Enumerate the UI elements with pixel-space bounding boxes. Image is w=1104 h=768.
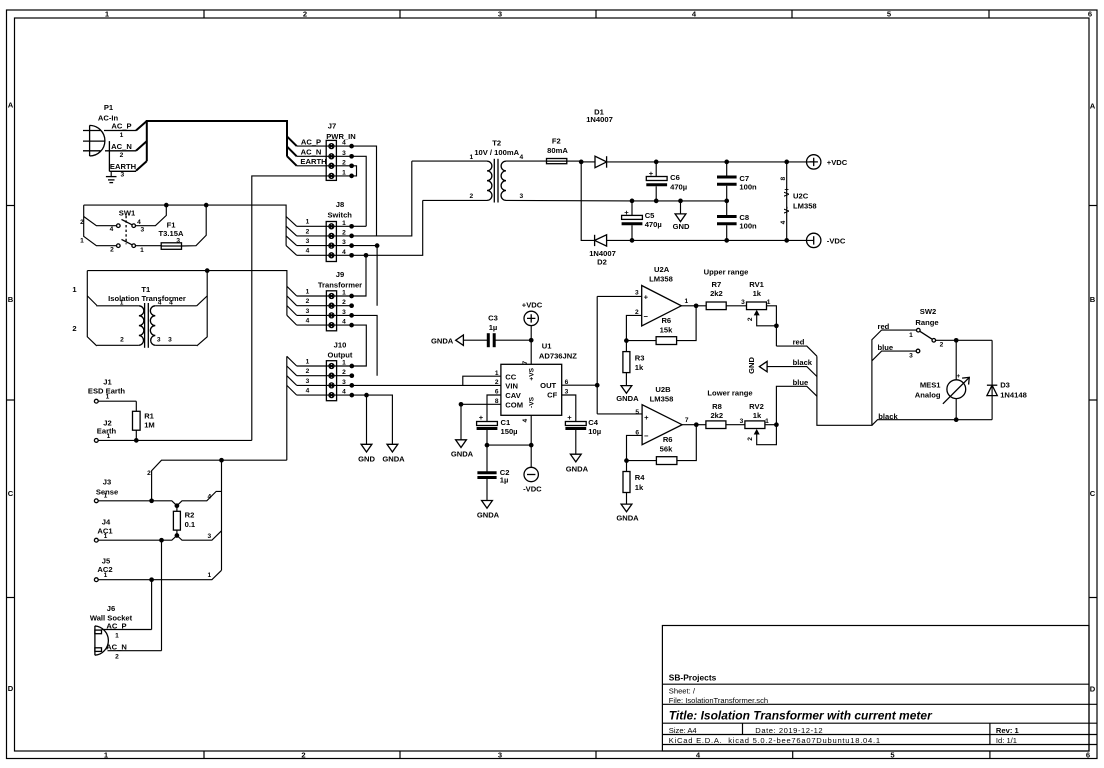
svg-text:C4: C4: [588, 418, 598, 427]
svg-text:AD736JNZ: AD736JNZ: [539, 352, 577, 361]
svg-text:+VDC: +VDC: [827, 158, 848, 167]
wire J8.3 to J9.2: [352, 246, 378, 306]
wire U1 COM: [461, 404, 501, 440]
svg-text:2k2: 2k2: [710, 411, 723, 420]
svg-text:EARTH: EARTH: [110, 162, 136, 171]
svg-text:3: 3: [157, 337, 161, 344]
svg-text:3: 3: [306, 378, 310, 385]
svg-text:C6: C6: [670, 173, 680, 182]
wire J9.3 to J10.2: [352, 315, 378, 375]
resistor R6 15k (U2A feedback): [626, 306, 696, 345]
svg-text:T3.15A: T3.15A: [159, 229, 184, 238]
svg-text:Date: 2019-12-12: Date: 2019-12-12: [755, 726, 823, 735]
wire J7.2 to J7.1: [352, 166, 357, 176]
svg-text:U2B: U2B: [655, 385, 671, 394]
svg-text:470µ: 470µ: [645, 220, 662, 229]
ground GND (J10.4): [358, 444, 375, 463]
svg-text:8: 8: [780, 177, 787, 181]
ground GNDA (R3): [616, 386, 639, 403]
connector P1 AC-In: [83, 103, 136, 178]
wire J4 to J6 AC_N: [161, 540, 163, 651]
svg-text:C5: C5: [645, 211, 655, 220]
svg-text:1: 1: [107, 433, 111, 440]
wire U1 CF to C4: [562, 395, 576, 422]
svg-text:56k: 56k: [660, 445, 673, 454]
svg-text:1: 1: [342, 290, 346, 297]
op-amp U2A LM358: [626, 265, 696, 341]
capacitor C1 150u: [477, 413, 518, 445]
ground GNDA (R4): [616, 504, 639, 523]
svg-text:J1: J1: [103, 378, 112, 387]
svg-text:2: 2: [115, 653, 119, 660]
svg-text:SW2: SW2: [920, 307, 936, 316]
wire W1 J3 riser to J10 trunk: [147, 458, 287, 501]
svg-text:D3: D3: [1000, 380, 1010, 389]
svg-text:3: 3: [740, 418, 744, 425]
svg-text:1: 1: [342, 220, 346, 227]
svg-text:-VDC: -VDC: [523, 484, 542, 493]
svg-text:Lower range: Lower range: [707, 389, 752, 398]
title block: [662, 626, 1097, 752]
svg-text:red: red: [793, 338, 805, 347]
svg-text:Analog: Analog: [915, 390, 941, 399]
svg-text:J3: J3: [103, 478, 111, 487]
svg-text:4: 4: [306, 318, 310, 325]
wire red (RV1 to bundle): [776, 338, 817, 357]
wire black (to meter rail): [872, 412, 992, 425]
wire J7.4 to J8.2: [352, 146, 377, 236]
capacitor C2 1u: [477, 445, 509, 500]
svg-text:T1: T1: [141, 285, 151, 294]
junction dot T1.4: [205, 268, 210, 273]
svg-text:3: 3: [120, 171, 124, 178]
IC U1 AD736JNZ: [495, 342, 577, 423]
svg-text:R2: R2: [185, 511, 195, 520]
ground GNDA (COM): [451, 440, 474, 459]
bus entries J8: [286, 217, 297, 256]
resistor R8 2k2: [696, 402, 745, 429]
svg-text:File: IsolationTransformer.sch: File: IsolationTransformer.sch: [669, 696, 768, 705]
svg-text:3: 3: [342, 150, 346, 157]
svg-text:1k: 1k: [753, 289, 762, 298]
connector J7 PWR_IN: [297, 121, 356, 180]
svg-text:V-: V-: [782, 206, 791, 214]
svg-text:3: 3: [207, 533, 211, 540]
svg-text:Id: 1/1: Id: 1/1: [996, 736, 1017, 745]
op-amp U2B LM358: [627, 385, 697, 461]
svg-text:-VS: -VS: [529, 396, 536, 408]
svg-text:VIN: VIN: [505, 382, 518, 391]
svg-text:F1: F1: [167, 220, 177, 229]
svg-text:0.1: 0.1: [185, 520, 196, 529]
svg-text:Sheet: /: Sheet: /: [669, 687, 696, 696]
svg-text:RV1: RV1: [749, 280, 764, 289]
ground GND (black wire): [747, 356, 767, 373]
connector J2 Earth: [94, 418, 251, 442]
svg-text:2: 2: [342, 229, 346, 236]
wire meter vertical: [955, 340, 957, 419]
resistor R3 1k: [623, 341, 645, 386]
transformer T1: [72, 271, 207, 348]
svg-text:2: 2: [342, 159, 346, 166]
svg-text:blue: blue: [793, 378, 809, 387]
svg-text:GNDA: GNDA: [477, 510, 500, 519]
svg-text:2: 2: [342, 369, 346, 376]
svg-text:2: 2: [747, 317, 754, 321]
svg-text:PWR_IN: PWR_IN: [326, 132, 356, 141]
connector J3 Sense: [94, 478, 221, 509]
ground GNDA (C4): [566, 454, 589, 473]
bus entries J9: [287, 286, 297, 325]
svg-text:OUT: OUT: [540, 381, 556, 390]
svg-text:1: 1: [767, 299, 771, 306]
svg-text:7: 7: [685, 417, 689, 424]
svg-text:3: 3: [342, 239, 346, 246]
resistor R2: [173, 506, 196, 536]
resistor R7 2k2: [696, 280, 746, 309]
svg-text:GND: GND: [747, 356, 756, 373]
diode D1 1N4007: [581, 108, 814, 168]
svg-text:J5: J5: [102, 556, 111, 565]
svg-text:1: 1: [909, 332, 913, 339]
svg-text:1: 1: [120, 299, 124, 306]
svg-text:100n: 100n: [739, 221, 757, 230]
svg-text:1: 1: [104, 493, 108, 500]
ground GNDA (J10.4): [382, 444, 405, 463]
power flag +VDC: [807, 155, 848, 169]
svg-text:R6: R6: [663, 435, 673, 444]
wire U1 pin4 to -VDC: [530, 415, 532, 467]
connector J1 ESD Earth: [88, 378, 136, 404]
power flag -VDC: [807, 233, 846, 247]
diode D3 1N4148: [987, 340, 1027, 419]
potentiometer RV1 1k: [741, 280, 779, 346]
svg-text:LM358: LM358: [793, 201, 817, 210]
wire J10.3 to U1 VIN: [352, 384, 501, 386]
svg-text:J10: J10: [334, 340, 347, 349]
wire mid rail: [632, 200, 727, 202]
junction dots J10: [349, 364, 368, 398]
svg-text:4: 4: [306, 388, 310, 395]
svg-text:1: 1: [80, 238, 84, 245]
junction dots U2B: [624, 458, 629, 463]
connector J10 Output: [297, 340, 353, 400]
svg-text:AC_N: AC_N: [111, 142, 132, 151]
transformer T2: [412, 139, 632, 203]
svg-text:3: 3: [168, 337, 172, 344]
svg-text:C1: C1: [501, 418, 511, 427]
svg-text:LM358: LM358: [650, 394, 674, 403]
wire J7.1 to J2: [252, 176, 326, 441]
resistor R6 56k (U2B feedback): [627, 425, 697, 465]
capacitor C8 100n: [717, 201, 757, 241]
svg-text:CAV: CAV: [505, 391, 521, 400]
power flag -VDC (U1): [523, 467, 542, 493]
svg-text:GNDA: GNDA: [616, 514, 639, 523]
svg-text:AC_P: AC_P: [106, 621, 126, 630]
svg-text:1: 1: [684, 298, 688, 305]
svg-text:AC_P: AC_P: [301, 137, 321, 146]
svg-text:T2: T2: [492, 139, 501, 148]
svg-text:4: 4: [306, 248, 310, 255]
svg-text:3: 3: [519, 193, 523, 200]
svg-text:100n: 100n: [739, 182, 757, 191]
svg-text:1: 1: [120, 132, 124, 139]
svg-text:+: +: [956, 373, 960, 380]
svg-text:1: 1: [104, 533, 108, 540]
wire J8.2 to T2.1: [352, 161, 412, 236]
svg-text:2: 2: [147, 470, 151, 477]
svg-text:Size: A4: Size: A4: [669, 726, 697, 735]
wire blue (RV2 to bundle): [776, 378, 817, 425]
svg-text:D2: D2: [597, 258, 607, 267]
svg-text:4: 4: [158, 299, 162, 306]
ground GNDA (C3): [431, 335, 463, 345]
svg-text:GNDA: GNDA: [566, 465, 589, 474]
svg-text:1k: 1k: [753, 411, 762, 420]
svg-text:4: 4: [110, 226, 114, 233]
svg-text:GND: GND: [358, 455, 375, 464]
svg-text:J9: J9: [336, 270, 344, 279]
svg-text:1: 1: [469, 154, 473, 161]
svg-text:Rev: 1: Rev: 1: [996, 726, 1020, 735]
connector J6 Wall Socket: [90, 604, 162, 661]
ground GND (mid rail): [673, 201, 690, 231]
svg-text:4: 4: [342, 389, 346, 396]
svg-text:80mA: 80mA: [547, 146, 568, 155]
svg-text:SW1: SW1: [119, 208, 136, 217]
svg-text:1: 1: [115, 633, 119, 640]
svg-text:7: 7: [522, 360, 529, 364]
connector J9 Transformer: [297, 270, 362, 331]
svg-text:4: 4: [342, 249, 346, 256]
svg-text:1: 1: [765, 418, 769, 425]
fuse F1: [159, 205, 207, 249]
resistor R4 1k: [623, 461, 645, 505]
svg-text:2: 2: [342, 299, 346, 306]
svg-text:1N4007: 1N4007: [586, 115, 613, 124]
wire J5 to J6 AC_P: [151, 580, 153, 630]
svg-text:J8: J8: [336, 200, 344, 209]
svg-text:1k: 1k: [635, 483, 644, 492]
svg-text:R3: R3: [635, 353, 645, 362]
wire U1 OUT to op-amp inputs: [562, 296, 642, 414]
svg-text:−: −: [644, 431, 649, 440]
svg-text:Range: Range: [915, 318, 938, 327]
wire J7.3 to J8.1: [352, 156, 367, 226]
svg-text:GNDA: GNDA: [431, 336, 454, 345]
svg-text:2: 2: [306, 298, 310, 305]
svg-text:GNDA: GNDA: [616, 394, 639, 403]
svg-text:2: 2: [303, 10, 307, 19]
svg-text:D: D: [1090, 685, 1096, 694]
fuse F2: [547, 137, 582, 164]
connector J5 AC2: [94, 556, 221, 582]
svg-text:1k: 1k: [635, 363, 644, 372]
svg-text:C: C: [8, 489, 14, 498]
svg-text:1: 1: [140, 247, 144, 254]
svg-text:B: B: [1090, 295, 1096, 304]
svg-text:P1: P1: [104, 103, 114, 112]
diode D2 1N4007: [581, 162, 814, 267]
svg-text:1N4148: 1N4148: [1000, 390, 1027, 399]
ground GNDA (C2): [477, 501, 500, 520]
svg-text:R4: R4: [635, 473, 645, 482]
svg-text:CF: CF: [547, 391, 557, 400]
svg-text:Transformer: Transformer: [318, 280, 362, 289]
svg-text:10µ: 10µ: [588, 427, 601, 436]
svg-text:4: 4: [519, 154, 523, 161]
svg-text:2: 2: [120, 337, 124, 344]
svg-text:3: 3: [306, 308, 310, 315]
svg-text:+: +: [567, 413, 572, 422]
svg-text:+: +: [644, 292, 649, 301]
wire C1 to -VS: [487, 444, 531, 446]
svg-text:4: 4: [780, 220, 787, 224]
svg-text:COM: COM: [505, 401, 523, 410]
svg-text:2k2: 2k2: [710, 289, 723, 298]
svg-text:3: 3: [741, 299, 745, 306]
wire trunk T1 secondary taps: [221, 460, 223, 570]
resistor R1: [133, 401, 155, 440]
svg-text:+: +: [644, 413, 649, 422]
capacitor C4 10u: [565, 413, 601, 454]
svg-text:2: 2: [747, 437, 754, 441]
wire SW1 top rail: [84, 205, 286, 246]
svg-text:3: 3: [909, 352, 913, 359]
svg-text:1M: 1M: [144, 420, 155, 429]
svg-text:C: C: [1090, 489, 1096, 498]
svg-text:15k: 15k: [660, 325, 673, 334]
svg-text:3: 3: [498, 751, 502, 760]
svg-text:2: 2: [72, 324, 76, 333]
svg-text:2: 2: [306, 368, 310, 375]
svg-text:10V / 100mA: 10V / 100mA: [474, 148, 519, 157]
svg-text:6: 6: [1088, 10, 1092, 19]
op-amp U2C power pins: [780, 162, 817, 241]
svg-text:4: 4: [342, 319, 346, 326]
svg-text:6: 6: [1086, 751, 1090, 760]
svg-text:2: 2: [940, 341, 944, 348]
svg-text:J6: J6: [107, 604, 115, 613]
svg-text:1: 1: [207, 572, 211, 579]
power flag +VDC (U1): [522, 300, 543, 364]
wire J10.4 to GND/GNDA: [352, 395, 393, 444]
svg-text:A: A: [1090, 102, 1096, 111]
wire red (to SW2.1): [878, 322, 917, 331]
svg-text:1: 1: [306, 358, 310, 365]
svg-text:GNDA: GNDA: [382, 455, 405, 464]
svg-text:1: 1: [104, 572, 108, 579]
svg-text:C3: C3: [488, 313, 498, 322]
svg-text:150µ: 150µ: [501, 427, 518, 436]
potentiometer RV2 1k: [740, 402, 779, 445]
svg-text:2: 2: [306, 228, 310, 235]
svg-text:1: 1: [342, 169, 346, 176]
wire J8.1 up: [352, 225, 367, 227]
svg-text:3: 3: [498, 10, 502, 19]
svg-text:GNDA: GNDA: [451, 450, 474, 459]
svg-text:+VDC: +VDC: [522, 300, 543, 309]
svg-text:AC_P: AC_P: [111, 122, 131, 131]
svg-text:MES1: MES1: [920, 380, 941, 389]
svg-text:4: 4: [207, 494, 211, 501]
svg-text:GND: GND: [673, 222, 690, 231]
junction dots J7: [349, 144, 354, 178]
connector J4 AC1: [94, 517, 221, 542]
svg-text:1µ: 1µ: [489, 323, 498, 332]
wire T1 top rail to J9: [87, 271, 287, 316]
svg-text:CC: CC: [505, 372, 516, 381]
switch SW1: [80, 205, 166, 254]
junction dots U2A: [624, 338, 629, 343]
svg-text:V+: V+: [782, 187, 791, 197]
junction dots J8: [349, 224, 379, 258]
capacitor C6 470u: [646, 162, 687, 201]
svg-text:U2C: U2C: [793, 191, 809, 200]
svg-text:4: 4: [522, 418, 529, 422]
svg-text:2: 2: [120, 152, 124, 159]
svg-text:1µ: 1µ: [500, 476, 509, 485]
svg-text:U2A: U2A: [654, 265, 670, 274]
svg-text:3: 3: [635, 290, 639, 297]
svg-text:+VS: +VS: [529, 367, 536, 380]
svg-text:R6: R6: [661, 316, 671, 325]
svg-text:AC_N: AC_N: [301, 148, 322, 157]
svg-text:+: +: [479, 413, 484, 422]
svg-text:2: 2: [495, 379, 499, 386]
wire bundle U: [817, 330, 882, 425]
svg-text:SB-Projects: SB-Projects: [669, 672, 717, 682]
capacitor C7 100n: [717, 162, 757, 201]
capacitor C5 470u: [622, 201, 662, 241]
svg-text:Output: Output: [328, 351, 353, 360]
capacitor C3 1u: [463, 313, 533, 347]
wire J8.4 to T2.2 and J9.1: [352, 200, 423, 296]
ground (P1 earth): [106, 171, 117, 182]
svg-text:1: 1: [106, 394, 110, 401]
svg-text:D: D: [8, 684, 14, 693]
svg-text:3: 3: [140, 227, 144, 234]
svg-text:4: 4: [342, 140, 346, 147]
svg-text:Switch: Switch: [327, 211, 352, 220]
svg-text:4: 4: [137, 219, 141, 226]
svg-text:R1: R1: [144, 411, 154, 420]
junction dots power rails: [579, 160, 789, 243]
svg-text:1: 1: [342, 360, 346, 367]
svg-text:3: 3: [176, 238, 180, 245]
wire U1 CC: [463, 376, 501, 385]
svg-text:2: 2: [110, 246, 114, 253]
svg-text:2: 2: [301, 751, 305, 760]
bus entries J10 with trunk to W1: [287, 356, 297, 395]
svg-text:3: 3: [342, 379, 346, 386]
wire J9.4 to J10.1: [352, 325, 367, 366]
svg-text:A: A: [8, 101, 14, 110]
connector J8 Switch: [297, 200, 353, 261]
junction dots J9: [349, 294, 354, 328]
svg-text:LM358: LM358: [649, 274, 673, 283]
svg-text:3: 3: [306, 238, 310, 245]
svg-text:F2: F2: [552, 137, 561, 146]
svg-text:U1: U1: [542, 342, 552, 351]
svg-text:J7: J7: [328, 121, 336, 130]
svg-text:1: 1: [306, 288, 310, 295]
wire U1 CAV to C1: [487, 395, 501, 422]
wire black (GND to bundle): [767, 358, 817, 376]
svg-text:-VDC: -VDC: [827, 236, 846, 245]
svg-text:B: B: [8, 295, 14, 304]
